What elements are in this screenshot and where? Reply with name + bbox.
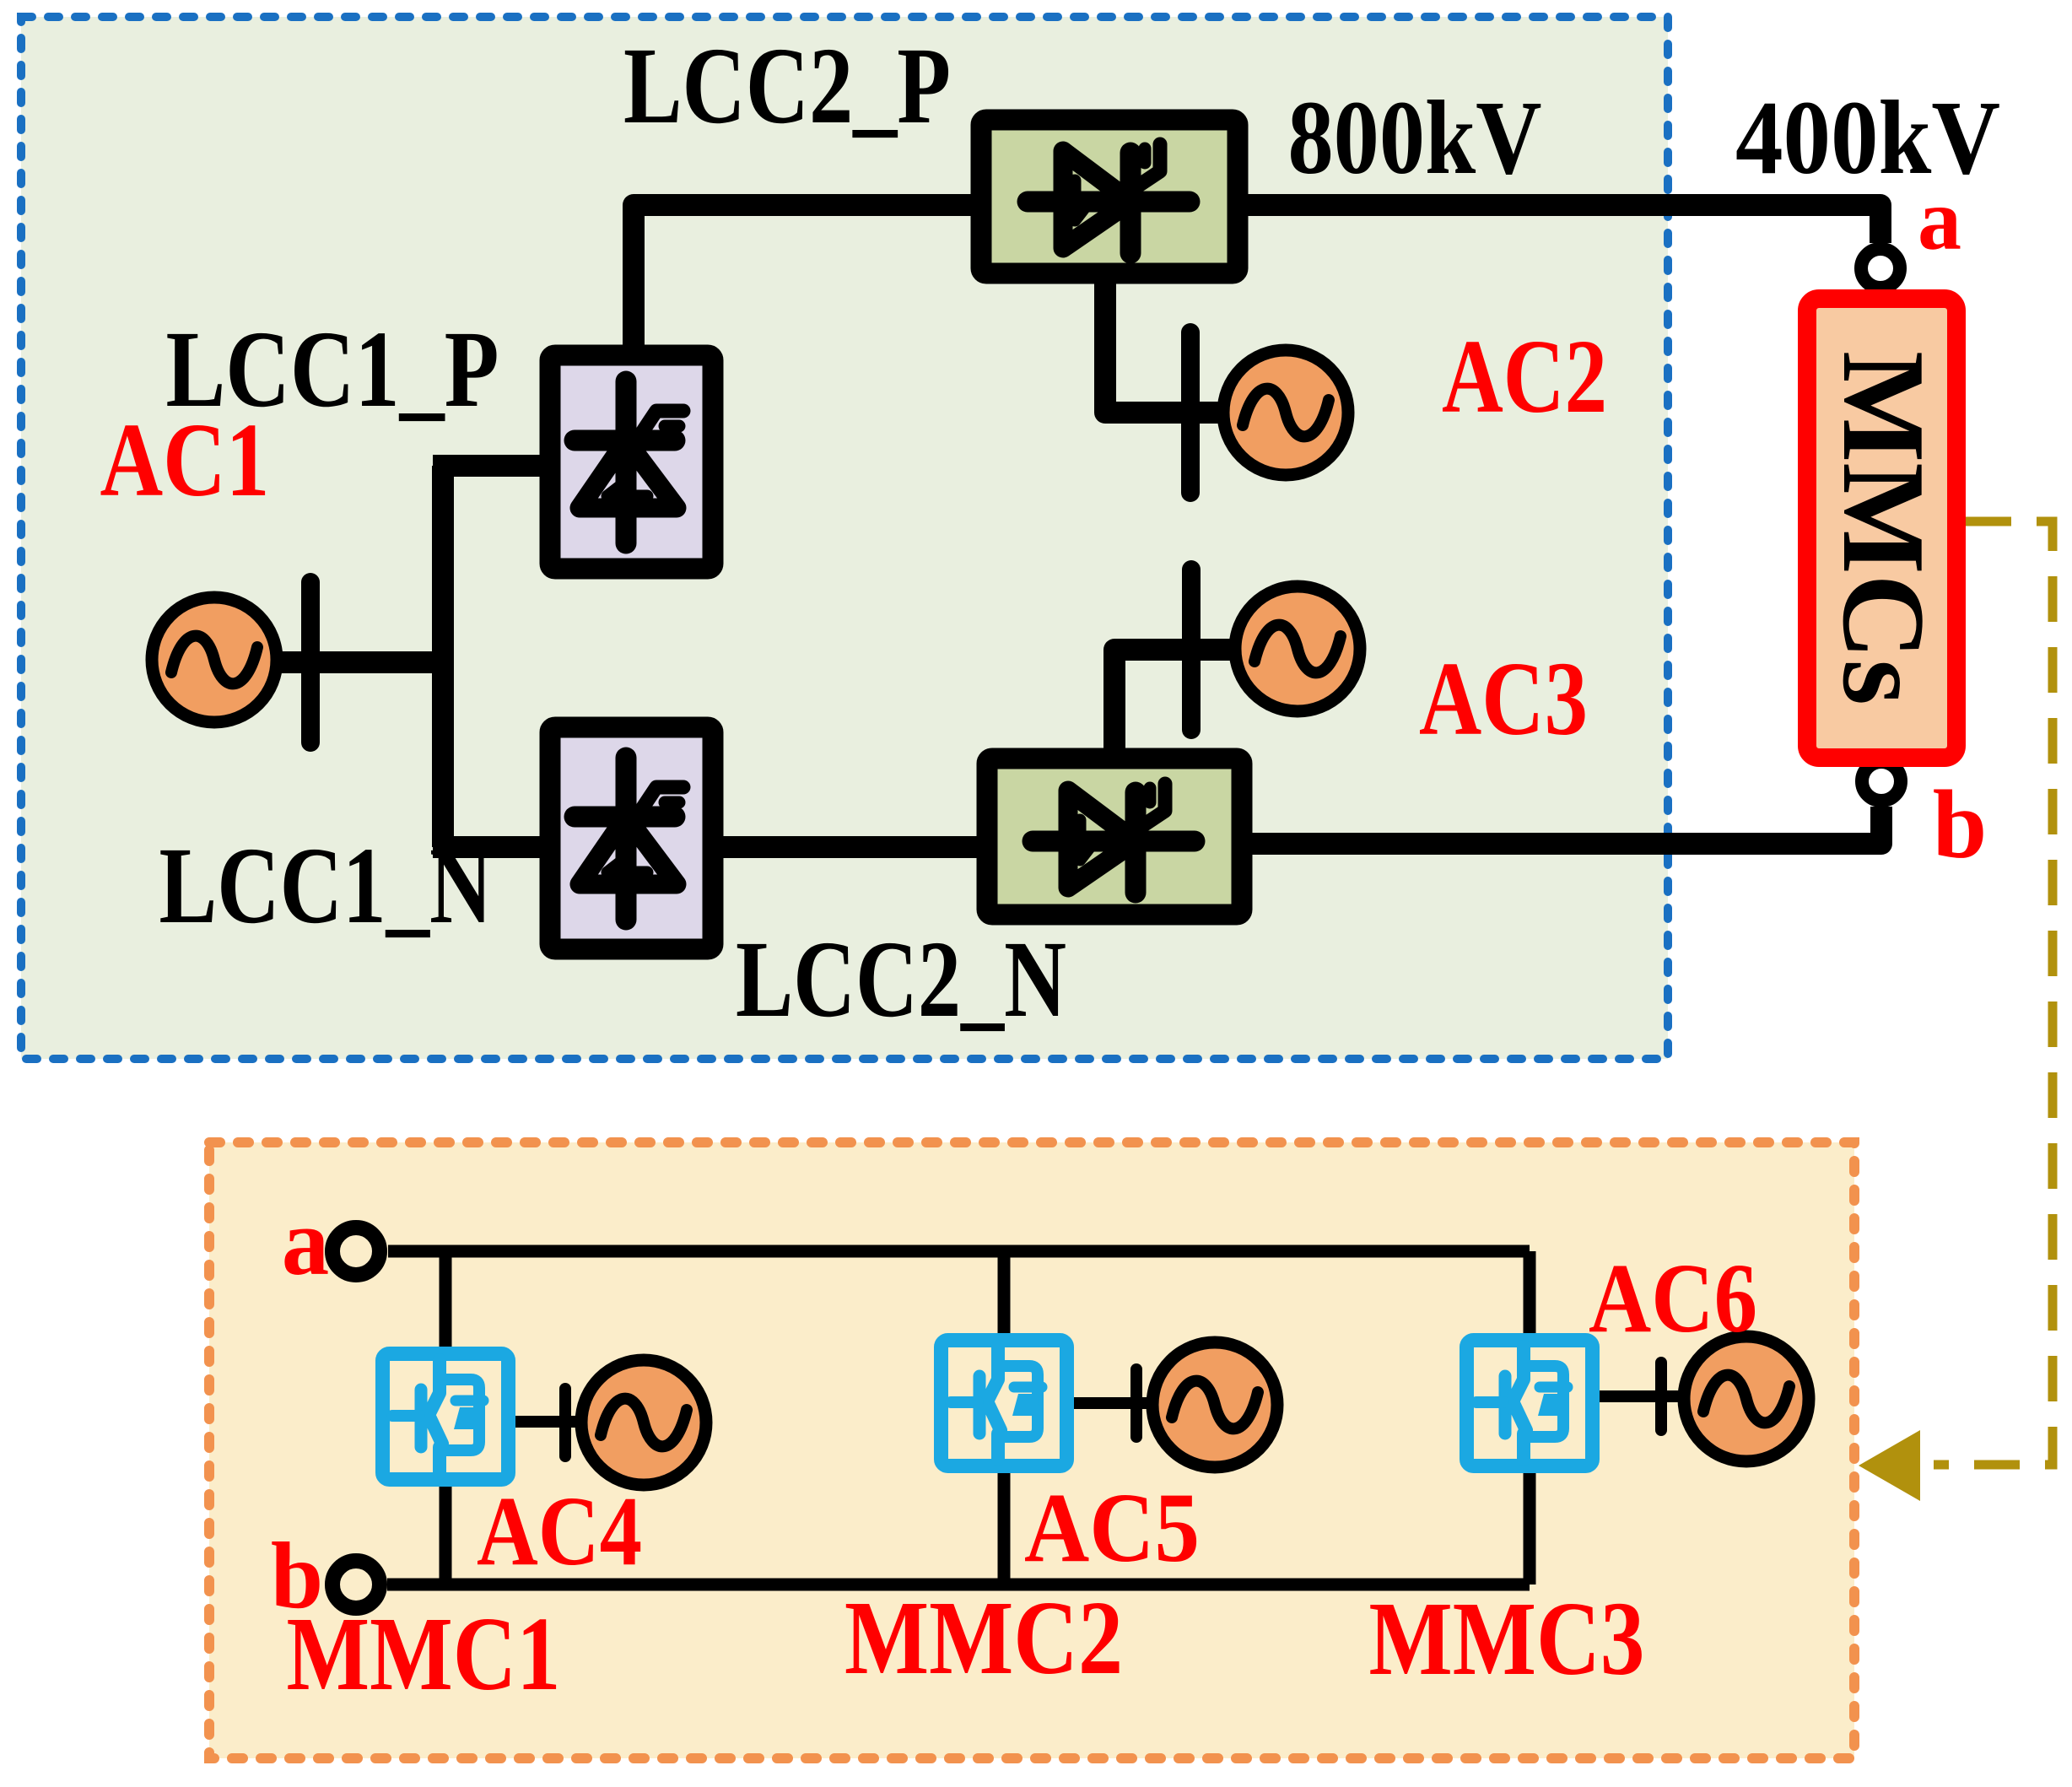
svg-text:AC1: AC1 [100,402,270,519]
olive arrow head [1859,1430,1920,1501]
node a terminal (top) [1861,249,1900,288]
svg-text:AC2: AC2 [1442,319,1607,435]
AC2 busbar tick [1190,332,1191,493]
wire LCC2_N right to node b [1242,807,1881,844]
svg-text:MMC2: MMC2 [844,1580,1123,1697]
wire LCC2_P bottom to AC2 [1105,278,1225,413]
svg-text:AC5: AC5 [1024,1472,1200,1583]
riser MMC2 [998,1251,1011,1585]
converter LCC2_P [981,120,1238,273]
wire LCC1_N right to LCC2_N left port [713,836,987,858]
MMC system box (orange dashed, cream) [209,1142,1854,1758]
AC3 source [1235,586,1360,711]
svg-text:MMCs: MMCs [1818,351,1949,705]
node b terminal (top) [1862,762,1901,801]
AC4 busbar tick [564,1389,566,1456]
svg-text:MMC3: MMC3 [1369,1581,1645,1698]
wire MMC1 to AC4 [515,1416,585,1428]
svg-text:AC3: AC3 [1419,641,1588,758]
svg-text:a: a [282,1190,330,1295]
olive dashed control link [1934,521,2053,1465]
wire AC1 bus to trunk [282,651,443,673]
svg-text:LCC1_N: LCC1_N [159,825,493,947]
wire trunk to LCC1_N left port [433,836,550,858]
wire 800kV line LCC2_P right to node a [1238,205,1880,243]
svg-text:a: a [1918,171,1961,268]
svg-text:800kV: 800kV [1288,80,1542,197]
converter LCC1_P [550,355,713,569]
AC5 source [1152,1342,1277,1467]
wire MMC3 to AC6 [1597,1390,1687,1402]
converter MMC3 [1467,1341,1593,1466]
AC3 busbar tick [1190,570,1192,730]
bus b (bottom) [387,1579,1530,1591]
converter LCC2_N [987,759,1242,915]
wire trunk vertical [432,466,454,847]
AC2 source [1223,350,1348,475]
converter MMC1 [383,1354,509,1480]
AC6 busbar tick [1660,1363,1662,1430]
node a terminal (bottom) [332,1228,380,1275]
riser MMC3 [1524,1251,1536,1585]
AC5 busbar tick [1136,1369,1137,1437]
AC1 source [152,597,277,722]
svg-text:AC4: AC4 [477,1476,642,1586]
converter MMC2 [942,1341,1067,1466]
wire LCC1_P top to LCC2_P left port [634,205,981,354]
wire trunk to LCC1_P left port [433,455,550,477]
svg-text:MMC1: MMC1 [287,1596,561,1713]
MMCs equivalent box [1807,299,1956,758]
bus a (bottom) [388,1245,1530,1258]
riser MMC1 [440,1251,452,1585]
svg-text:AC6: AC6 [1589,1243,1757,1353]
AC4 source [581,1360,706,1485]
LCC system box (blue dashed, light green) [21,17,1668,1059]
wire LCC2_N top to AC3 [1114,650,1237,753]
AC1 busbar tick [310,582,311,742]
AC6 source [1684,1336,1809,1461]
svg-text:b: b [1933,771,1988,879]
svg-text:LCC2_N: LCC2_N [736,919,1066,1040]
svg-text:LCC2_P: LCC2_P [623,25,951,147]
node b terminal (bottom) [332,1561,380,1608]
converter LCC1_N [550,727,713,949]
wire MMC2 to AC5 [1073,1397,1156,1409]
